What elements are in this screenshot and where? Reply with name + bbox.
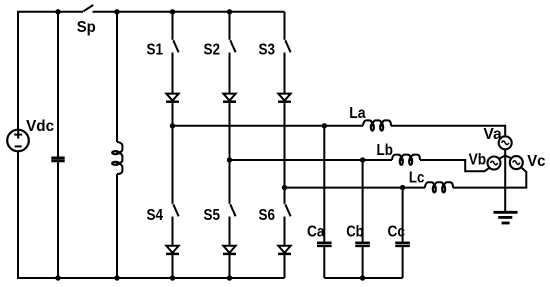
- inductor Lb: [392, 155, 420, 165]
- wire phase B to Vb: [420, 160, 490, 171]
- node top bus / leg 2: [227, 9, 232, 14]
- inductor L (dc link, vertical coil): [112, 142, 122, 174]
- wire neutral to Vc: [505, 156, 512, 159]
- wire Cc leg: [402, 188, 404, 242]
- svg-text:Va: Va: [483, 126, 501, 143]
- node Cb tap on phase B: [360, 157, 365, 162]
- node phase A tap on leg1: [170, 123, 175, 128]
- wire bottom bus: [17, 277, 285, 279]
- svg-text:Vc: Vc: [527, 153, 545, 170]
- wire leg2 between node B and S5: [229, 160, 231, 204]
- inductor La: [363, 120, 391, 130]
- svg-text:Ca: Ca: [307, 224, 325, 241]
- wire phase C to Vc: [453, 167, 526, 187]
- svg-text:Vb: Vb: [469, 151, 487, 168]
- wire leg1 between node A and S4: [172, 126, 174, 204]
- switch S1: [173, 40, 178, 52]
- svg-text:Vdc: Vdc: [26, 118, 54, 135]
- wire dc-link capacitor leg lower: [57, 162, 59, 278]
- ac source Vb: [488, 157, 501, 170]
- wire leg1 between D1 and phase A node: [172, 102, 174, 126]
- node phase B tap on leg2: [227, 157, 232, 162]
- ac source Vc: [510, 156, 523, 169]
- wire left vertical lower (Vdc to bottom bus): [17, 151, 19, 278]
- svg-text:Lc: Lc: [409, 169, 425, 186]
- diode D6: [278, 246, 291, 254]
- capacitor Cc: [395, 243, 410, 246]
- diode D2: [223, 94, 236, 102]
- wire leg2 between D2 and phase B node: [229, 102, 231, 160]
- diode D3: [278, 94, 291, 102]
- wire leg3 between S3 and D3: [284, 53, 286, 95]
- node Ca tap on phase A: [322, 123, 327, 128]
- wire leg1 between S4 and D4: [172, 217, 174, 247]
- svg-text:Cb: Cb: [346, 224, 364, 241]
- svg-text:S3: S3: [259, 41, 276, 58]
- wire phase A bus: [173, 125, 364, 127]
- wire dc-link capacitor leg upper: [57, 12, 59, 157]
- node bottom bus / dc-link inductor: [114, 275, 119, 280]
- svg-text:Sp: Sp: [77, 19, 96, 36]
- wire Va to neutral node: [504, 149, 506, 156]
- wire Cc leg lower: [402, 247, 404, 278]
- svg-text:S4: S4: [147, 207, 164, 224]
- wire leg2 between D5 and bottom bus: [229, 254, 231, 278]
- node phase C tap on leg3: [282, 185, 287, 190]
- node bottom bus / dc-link capacitor: [55, 275, 60, 280]
- wire phase A to Va: [391, 126, 505, 137]
- diode D1: [166, 94, 179, 102]
- node bottom bus / leg 2: [227, 275, 232, 280]
- switch S5: [230, 204, 235, 216]
- diode D4: [166, 246, 179, 254]
- svg-text:S5: S5: [204, 207, 221, 224]
- wire leg3 top: [284, 12, 286, 40]
- diode D5: [223, 246, 236, 254]
- svg-text:La: La: [349, 105, 365, 122]
- node bottom bus / leg 1: [170, 275, 175, 280]
- wire leg1 between S1 and D1: [172, 53, 174, 95]
- wire dc-link inductor leg upper: [116, 12, 118, 142]
- node Cb bottom junction: [360, 275, 365, 280]
- dc source Vdc: [7, 130, 29, 152]
- node top bus / dc-link inductor: [114, 9, 119, 14]
- wire leg3 between node C and S6: [284, 188, 286, 204]
- node top bus / leg 1: [170, 9, 175, 14]
- wire phase B bus: [230, 159, 393, 161]
- node Cc tap on phase C: [400, 185, 405, 190]
- wire leg1 between D4 and bottom bus: [172, 254, 174, 278]
- wire Ca leg: [323, 126, 325, 242]
- switch S6: [285, 204, 290, 216]
- capacitor Ca: [317, 243, 332, 246]
- wire leg2 between S2 and D2: [229, 53, 231, 95]
- wire Cb leg lower: [362, 247, 364, 278]
- wire leg2 top: [229, 12, 231, 40]
- ground: [494, 212, 518, 223]
- wire top bus left segment: [17, 11, 83, 13]
- wire Cb leg: [362, 160, 364, 242]
- wire leg1 top: [172, 12, 174, 40]
- wire leg3 between S6 and D6: [284, 217, 286, 247]
- svg-text:Lb: Lb: [377, 142, 394, 159]
- node top bus / dc-link capacitor: [55, 9, 60, 14]
- svg-text:Cc: Cc: [388, 224, 406, 241]
- wire left vertical upper (Vdc to top bus): [17, 12, 19, 130]
- wire leg3 between D3 and phase C node: [284, 102, 286, 188]
- switch S3: [285, 40, 290, 52]
- switch Sp arm: [83, 5, 93, 11]
- wire leg3 between D6 and bottom bus: [284, 254, 286, 278]
- wire phase C bus: [285, 187, 426, 189]
- svg-text:S2: S2: [204, 41, 221, 58]
- capacitor C (dc link): [51, 158, 64, 161]
- ac source Va: [499, 136, 512, 149]
- wire top bus right segment: [93, 11, 285, 13]
- switch S4: [173, 204, 178, 216]
- svg-text:S6: S6: [259, 207, 276, 224]
- switch S2: [230, 40, 235, 52]
- wire leg2 between S5 and D5: [229, 217, 231, 247]
- wire dc-link inductor leg lower: [116, 174, 118, 278]
- inductor Lc: [425, 182, 453, 192]
- wire neutral to Vb: [499, 156, 506, 160]
- capacitor Cb: [355, 243, 370, 246]
- wire capacitor bank bottom bus: [324, 277, 402, 279]
- svg-text:S1: S1: [147, 41, 164, 58]
- wire neutral down to ground: [504, 155, 506, 212]
- wire Ca leg lower: [323, 247, 325, 278]
